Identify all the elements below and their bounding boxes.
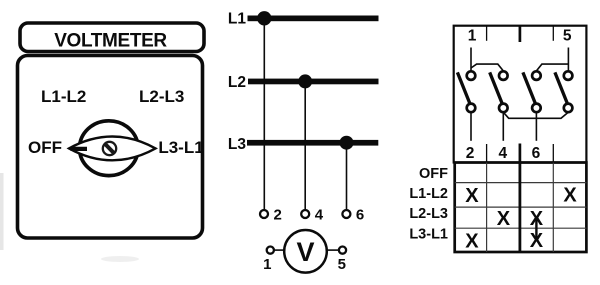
svg-text:L3: L3 — [228, 136, 246, 153]
svg-text:X: X — [530, 230, 544, 252]
terminal 6 — [342, 207, 364, 224]
top tick center (bold) — [519, 26, 522, 42]
svg-text:OFF: OFF — [419, 166, 448, 182]
truth table grid — [455, 163, 587, 253]
svg-text:2: 2 — [274, 207, 282, 224]
link lower contacts 2-4 — [503, 112, 568, 118]
pole 2 lower contact — [499, 104, 508, 113]
svg-text:X: X — [465, 231, 479, 253]
svg-text:4: 4 — [315, 207, 324, 224]
svg-text:4: 4 — [498, 145, 507, 162]
pole 4 lower contact — [564, 104, 573, 113]
pole 1 blade — [457, 72, 470, 104]
bus L2 — [248, 79, 379, 85]
terminal 2 — [260, 207, 282, 224]
wire L1 to terminal 2 — [263, 18, 265, 209]
terminal 4 — [301, 207, 324, 224]
svg-text:5: 5 — [563, 28, 572, 45]
wire lower contact1 to pin 2 — [470, 112, 472, 141]
svg-text:L3-L1: L3-L1 — [409, 227, 448, 243]
svg-text:X: X — [563, 185, 577, 207]
junction dot L3 — [340, 136, 354, 150]
knob pointer mark — [71, 147, 88, 151]
pole 4 upper contact — [564, 71, 573, 80]
svg-text:6: 6 — [532, 145, 541, 162]
bus L3 — [247, 140, 378, 146]
svg-text:1: 1 — [263, 256, 271, 273]
rotary switch knob lens — [69, 137, 156, 161]
bus L1 — [248, 16, 379, 22]
top tick col1/col2 — [486, 26, 488, 41]
junction dot L2 — [298, 74, 312, 88]
junction dot L1 — [257, 11, 271, 25]
voltmeter panel title bar — [20, 23, 204, 52]
voltmeter panel body — [18, 56, 203, 239]
wire lower contact3 to pin 6 — [535, 112, 537, 141]
svg-text:2: 2 — [466, 145, 475, 162]
svg-text:VOLTMETER: VOLTMETER — [54, 30, 167, 51]
svg-text:L1-L2: L1-L2 — [409, 186, 448, 202]
pole 2 blade — [490, 72, 503, 104]
voltmeter V1 — [284, 230, 327, 273]
pole 3 blade — [523, 72, 536, 104]
wire L2 to terminal 4 — [304, 81, 306, 209]
pole 3 lower contact — [532, 104, 541, 113]
pole 3 upper contact — [532, 71, 541, 80]
svg-text:X: X — [497, 208, 511, 230]
wire pin5 down — [567, 48, 569, 72]
svg-text:5: 5 — [338, 256, 346, 273]
svg-text:L1: L1 — [228, 11, 246, 28]
bottom tick col3/col4 — [552, 144, 554, 163]
scan smudge left edge — [0, 173, 4, 250]
switch contact box — [454, 26, 587, 163]
pole 4 blade — [555, 72, 568, 104]
bottom tick col1/col2 — [486, 144, 488, 163]
pole 1 upper contact — [467, 71, 476, 80]
pole 2 upper contact — [499, 71, 508, 80]
svg-text:L2-L3: L2-L3 — [139, 87, 184, 106]
voltmeter terminal 5 — [327, 247, 346, 274]
voltmeter terminal 1 — [263, 247, 284, 274]
svg-text:X: X — [465, 185, 479, 207]
svg-text:L2-L3: L2-L3 — [409, 206, 448, 222]
knob screw head — [103, 142, 116, 155]
bottom tick center (bold) — [519, 144, 522, 163]
link upper contacts 1-2 — [471, 64, 503, 71]
svg-text:V: V — [296, 237, 314, 267]
svg-text:1: 1 — [468, 28, 477, 45]
svg-text:L1-L2: L1-L2 — [41, 87, 86, 106]
link upper contacts 3-4 — [536, 64, 568, 71]
top tick col3/col4 — [552, 26, 554, 41]
wire L3 to terminal 6 — [346, 143, 348, 210]
wire pin1 down — [470, 48, 472, 72]
svg-text:L2: L2 — [228, 74, 246, 91]
rotary switch knob circle — [80, 121, 139, 176]
svg-text:6: 6 — [356, 207, 364, 224]
pole 1 lower contact — [467, 104, 476, 113]
svg-text:L3-L1: L3-L1 — [158, 138, 203, 157]
X link vertical pin6 column — [535, 216, 537, 241]
svg-text:OFF: OFF — [28, 138, 62, 157]
wire lower contact2 to pin 4 — [502, 112, 504, 141]
scan smudge bottom center — [101, 256, 139, 262]
